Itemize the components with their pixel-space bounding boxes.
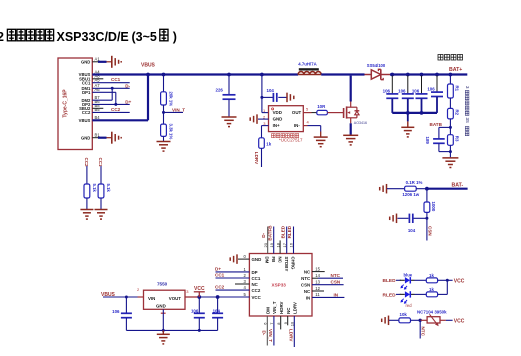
ground at R CC2 — [80, 210, 93, 220]
wire rail D1 to BAT+ — [390, 73, 467, 75]
ground at U2 IN- — [314, 137, 328, 147]
svg-text:GND: GND — [81, 60, 90, 65]
svg-text:VIN: VIN — [148, 296, 155, 301]
node VBUS label — [141, 63, 156, 69]
node VCC (LED) — [454, 278, 465, 284]
svg-text:20: 20 — [263, 242, 268, 247]
svg-text:CC1: CC1 — [252, 276, 261, 281]
ground at 10k — [382, 316, 389, 326]
svg-text:106: 106 — [112, 309, 120, 314]
svg-text:BATB: BATB — [430, 122, 443, 127]
svg-text:VIN_T: VIN_T — [268, 329, 273, 342]
transistor Q1 AO3416 — [342, 76, 367, 135]
wire U1 DP / node D+ — [215, 266, 249, 272]
svg-text:D+: D+ — [215, 266, 221, 271]
capacitor C 106 #2 — [398, 73, 414, 113]
svg-text:5: 5 — [306, 107, 309, 112]
svg-text:STDBY: STDBY — [284, 257, 289, 272]
resistor 1k (BLED) — [426, 273, 452, 283]
svg-text:A5: A5 — [95, 78, 101, 83]
wire cap bank bottom bus — [392, 111, 437, 115]
resistor R CC2 5.1k — [84, 158, 97, 210]
wire U1 pin20 DM / node D- — [261, 227, 268, 254]
svg-text:20k 1%: 20k 1% — [168, 92, 173, 107]
svg-text:CHRG: CHRG — [291, 257, 296, 271]
svg-text:GND: GND — [156, 304, 166, 309]
svg-text:CC1: CC1 — [215, 272, 225, 277]
svg-text:Type-C_16P: Type-C_16P — [63, 89, 69, 118]
svg-text:CC1: CC1 — [98, 158, 103, 167]
resistor 10R — [317, 104, 342, 115]
svg-text:CC2: CC2 — [252, 288, 261, 293]
svg-text:0.1R 1%: 0.1R 1% — [406, 180, 423, 185]
svg-text:GND: GND — [273, 117, 283, 122]
svg-text:DP: DP — [252, 270, 258, 275]
svg-text:GND: GND — [81, 135, 90, 140]
node BATB — [430, 122, 452, 139]
node LDRV (driver input) — [254, 152, 259, 165]
LED blue (BLED) — [383, 273, 427, 289]
svg-text:5.1k: 5.1k — [92, 184, 97, 193]
svg-text:DM: DM — [265, 307, 270, 314]
wire U2 IN- pin4 to ground — [303, 120, 320, 137]
svg-text:14: 14 — [315, 273, 320, 278]
wire U1 pin11 / node IN — [312, 292, 344, 297]
ground at Q1 source — [343, 135, 358, 145]
svg-text:NC: NC — [304, 270, 311, 275]
svg-text:R3: R3 — [454, 136, 459, 142]
ground at 104 sense — [390, 214, 397, 224]
resistor 0.1R 1% 1206 1w — [387, 180, 427, 197]
svg-text:9: 9 — [283, 321, 288, 324]
svg-text:CC2: CC2 — [84, 158, 89, 167]
resistor R1 — [448, 73, 460, 109]
wire U1 pin17 STDBY / node BLED — [280, 225, 287, 253]
svg-text:19: 19 — [269, 242, 274, 247]
svg-text:NC: NC — [304, 289, 311, 294]
resistor 1k (LDRV) — [259, 138, 272, 167]
svg-text:blue: blue — [404, 273, 413, 278]
svg-text:BLED: BLED — [280, 225, 285, 238]
svg-text:red: red — [406, 303, 413, 308]
wire U1 pin8 HDRV stub — [276, 316, 281, 329]
svg-text:226: 226 — [216, 88, 224, 93]
ground at R3 — [442, 158, 458, 168]
svg-text:10k: 10k — [400, 312, 408, 317]
svg-text:6: 6 — [263, 322, 268, 325]
wire U1 pin3 NC stub — [235, 279, 249, 284]
svg-text:VCC: VCC — [454, 318, 465, 324]
ground at U2 GND — [250, 114, 257, 124]
svg-text:AO3416: AO3416 — [354, 121, 367, 125]
svg-text:4: 4 — [307, 120, 310, 125]
wire U1 pin18 NC stub — [275, 240, 280, 253]
svg-text:1: 1 — [244, 267, 247, 272]
svg-text:R1: R1 — [454, 86, 459, 92]
ground at 3.3k — [157, 142, 171, 152]
resistor 10k — [389, 312, 420, 323]
resistor 1k (RLED) — [426, 287, 447, 297]
ground at J1.B1 — [112, 132, 121, 144]
svg-text:LDRV: LDRV — [254, 152, 259, 165]
op-amp/driver U2 UCC27517 — [269, 106, 304, 143]
svg-text:104: 104 — [267, 88, 275, 93]
wire U1 VCC pin5 — [218, 292, 250, 297]
svg-text:BLED: BLED — [383, 278, 397, 284]
svg-text:VCC: VCC — [252, 295, 262, 300]
capacitor 189 — [425, 137, 451, 152]
svg-text:3: 3 — [465, 86, 470, 89]
ground at 226 — [222, 117, 237, 127]
svg-text:1206 1w: 1206 1w — [402, 192, 419, 197]
svg-text:3S: 3S — [465, 118, 470, 123]
connector J1 Type-C_16P — [58, 57, 100, 150]
svg-text:5.1k: 5.1k — [106, 184, 111, 193]
svg-text:16: 16 — [289, 242, 294, 247]
diode D1 SS54/100 — [365, 63, 391, 80]
wire J1.B8 SBU2 stub — [92, 107, 103, 109]
resistor 1000 — [424, 189, 436, 219]
svg-text:10R: 10R — [317, 104, 326, 109]
ground at 0.1R — [380, 184, 387, 194]
svg-text:13: 13 — [315, 280, 320, 285]
wire U1 pin7 VIN_T — [268, 316, 274, 346]
wire node CSN — [427, 218, 432, 240]
capacitor C 106 #3 — [412, 73, 428, 113]
svg-text:CSN: CSN — [331, 280, 341, 285]
svg-text:VIN_T: VIN_T — [172, 107, 185, 112]
svg-text:XSP33C/D/E: XSP33C/D/E — [57, 30, 129, 44]
wire J1.A5 CC1 — [92, 77, 129, 83]
regulator U3 7550 — [137, 281, 189, 313]
node BAT+ — [449, 67, 462, 73]
svg-text:LDRV: LDRV — [292, 302, 297, 314]
svg-text:CC1: CC1 — [111, 77, 121, 82]
svg-text:4.7uH/7A: 4.7uH/7A — [298, 62, 316, 67]
resistor R2 — [448, 108, 460, 134]
wire J1.B1 GND — [92, 137, 111, 139]
ground at driver 104 — [287, 93, 294, 103]
resistor 20k 1% — [161, 73, 174, 125]
svg-text:NC: NC — [277, 257, 282, 264]
svg-text:17: 17 — [282, 242, 287, 247]
ground at 7550 — [157, 330, 170, 344]
svg-text:VDD: VDD — [273, 110, 282, 115]
label 接锂电池 — [438, 55, 463, 61]
svg-text:): ) — [173, 30, 177, 44]
svg-text:3.3k 1%: 3.3k 1% — [168, 124, 173, 140]
svg-text:VBUS: VBUS — [79, 118, 91, 123]
svg-text:CC1: CC1 — [82, 80, 91, 85]
ground at cap bank — [401, 113, 414, 137]
wire rail L1 to D1 — [321, 73, 364, 75]
svg-text:NTC: NTC — [301, 276, 311, 281]
capacitor C 106 #1 — [383, 73, 399, 113]
svg-text:HDRV: HDRV — [279, 301, 284, 313]
svg-text:FB: FB — [271, 257, 276, 263]
U2 pin 1 number — [263, 108, 266, 113]
svg-text:D-: D- — [261, 331, 266, 336]
wire J1.B5 CC2 — [92, 107, 129, 113]
svg-text:106: 106 — [412, 88, 420, 93]
svg-text:12: 12 — [315, 286, 320, 291]
svg-text:1k: 1k — [266, 142, 271, 147]
svg-text:10: 10 — [290, 321, 295, 326]
capacitor 104 (sense) — [398, 214, 429, 233]
svg-text:1k: 1k — [429, 287, 434, 292]
wire VBUS to U2 VDD — [260, 73, 269, 113]
svg-text:IN-: IN- — [294, 123, 300, 128]
svg-text:VBUS: VBUS — [141, 63, 156, 69]
svg-text:NC: NC — [252, 282, 259, 287]
svg-text:CSN: CSN — [301, 283, 310, 288]
svg-text:R2: R2 — [454, 110, 459, 116]
svg-text:2: 2 — [244, 273, 247, 278]
wire J1.B4 VBUS — [92, 73, 150, 121]
svg-text:1k: 1k — [429, 273, 434, 278]
wire J1.A6 DP1 — [92, 92, 116, 104]
svg-text:DM: DM — [265, 257, 270, 264]
wire U1 pin6 DM / node D- bottom — [261, 316, 267, 346]
wire U1 CC2 — [215, 285, 249, 291]
svg-text:IN: IN — [306, 295, 310, 300]
svg-text:SS54/100: SS54/100 — [367, 63, 386, 68]
svg-text:D+: D+ — [125, 99, 131, 104]
ground at R CC1 — [95, 210, 108, 220]
wire U1 pin12 NC stub — [312, 286, 324, 291]
svg-text:18: 18 — [275, 242, 280, 247]
svg-text:2: 2 — [137, 287, 140, 292]
svg-text:11: 11 — [315, 292, 320, 297]
wire node NTC — [420, 320, 425, 338]
svg-text:0: 0 — [244, 254, 247, 259]
wire U1 pin16 CHRG / node RLED — [287, 225, 294, 253]
svg-text:104: 104 — [408, 228, 416, 233]
svg-text:CC2: CC2 — [215, 285, 225, 290]
wire U1 pin15 NC stub — [312, 266, 325, 271]
IC U1 XSP33 — [249, 254, 312, 317]
node BAT- — [425, 182, 468, 190]
note 3个电芯串联3S电池 — [465, 86, 470, 136]
wire U1 pin14 / node NTC — [312, 273, 343, 278]
svg-text:RLED: RLED — [383, 292, 397, 298]
svg-text:7550: 7550 — [157, 281, 168, 286]
svg-text:LDRV: LDRV — [288, 329, 293, 342]
wire U1 pin19 FB / node BATFB — [267, 225, 274, 254]
wire U2 IN+ pin3 / 1k to LDRV — [262, 121, 269, 139]
svg-text:106: 106 — [427, 87, 435, 92]
title: 2 参考设计二 XSP33C/D/E (3~5 节) — [0, 29, 177, 44]
svg-text:5: 5 — [244, 292, 247, 297]
svg-text:*UCC27517: *UCC27517 — [279, 138, 303, 143]
svg-text:3: 3 — [186, 289, 189, 294]
wire VCC join — [446, 280, 448, 294]
svg-text:189: 189 — [425, 137, 430, 145]
svg-text:IN: IN — [334, 292, 339, 297]
wire U2 OUT pin5 — [303, 107, 317, 113]
node VIN_T — [162, 107, 185, 114]
svg-text:NTC: NTC — [331, 273, 341, 278]
svg-text:106: 106 — [383, 88, 391, 93]
svg-text:DP1: DP1 — [82, 90, 91, 95]
svg-text:CSN: CSN — [427, 226, 432, 236]
capacitor 226 — [216, 73, 236, 117]
thermistor NC7104 3950k — [417, 309, 447, 326]
wire U3 GND — [162, 309, 164, 330]
capacitor 106 (VCC) — [191, 297, 205, 330]
svg-text:VCC: VCC — [194, 286, 205, 292]
wire U1 pin9 NC stub — [283, 316, 288, 325]
svg-text:NC7104 3950k: NC7104 3950k — [417, 309, 447, 314]
capacitor C 106 #4 — [427, 73, 443, 113]
svg-text:RLED: RLED — [287, 225, 292, 238]
ground at U1 pin0 — [230, 254, 237, 264]
wire U2 GND pin2 — [258, 114, 269, 119]
svg-text:D-: D- — [261, 232, 266, 237]
svg-text:VCC: VCC — [454, 278, 465, 284]
svg-text:BAT-: BAT- — [452, 182, 464, 188]
wire VBUS rail (J1.A4 to L1) — [92, 73, 298, 75]
wire U1 CC1 — [215, 272, 249, 278]
svg-text:GND: GND — [252, 257, 262, 262]
resistor R3 — [448, 135, 460, 158]
wire 7550 bottom bus — [126, 329, 217, 332]
wire J1.A7 DM1 / node D- — [92, 83, 130, 89]
resistor 3.3k 1% — [161, 124, 174, 142]
node VCC (7550 out) — [194, 286, 205, 297]
wire J1.B6 DP2 / node D+ — [92, 99, 131, 106]
svg-text:(3~5: (3~5 — [132, 30, 157, 44]
svg-text:106: 106 — [398, 88, 406, 93]
U1 pin0 GND wire — [238, 254, 249, 259]
resistor R CC1 5.1k — [98, 158, 111, 210]
LED red (RLED) — [383, 291, 427, 308]
svg-text:NTC: NTC — [421, 327, 426, 337]
svg-text:D-: D- — [125, 83, 130, 88]
svg-text:1000: 1000 — [431, 202, 436, 212]
svg-text:CC2: CC2 — [82, 110, 91, 115]
inductor L1 4.7uH/7A — [298, 62, 321, 75]
node VBUS (7550 input) — [101, 292, 144, 298]
svg-text:CC2: CC2 — [111, 107, 121, 112]
svg-text:15: 15 — [315, 266, 320, 271]
svg-text:OUT: OUT — [292, 110, 302, 115]
svg-text:4: 4 — [244, 285, 247, 290]
svg-text:3: 3 — [244, 279, 247, 284]
wire U1 pin10 LDRV — [288, 316, 294, 347]
capacitor 106 (7550 in) — [112, 296, 132, 331]
wire U1 pin13 / node CSN — [312, 280, 344, 285]
capacitor 104 (VCC) — [212, 297, 223, 330]
svg-text:IN+: IN+ — [273, 123, 280, 128]
svg-text:2: 2 — [0, 30, 4, 44]
wire J1.A1 GND — [92, 61, 111, 63]
capacitor 104 (driver) — [260, 88, 286, 102]
ground at J1.A1 — [112, 56, 121, 68]
svg-text:BATFB: BATFB — [267, 225, 272, 241]
svg-text:VOUT: VOUT — [169, 296, 182, 301]
wire to VCC (NTC row) — [446, 318, 465, 324]
wire J1.B7 DM2 — [92, 88, 112, 100]
wire J1.A8 SBU1 stub — [92, 78, 103, 80]
wire U3 VOUT to U1 VCC — [185, 295, 249, 299]
svg-text:BAT+: BAT+ — [449, 67, 462, 73]
svg-text:VIN_T: VIN_T — [272, 301, 277, 314]
svg-text:XSP33: XSP33 — [272, 282, 287, 287]
svg-text:8: 8 — [276, 322, 281, 325]
svg-text:NC: NC — [286, 307, 291, 314]
